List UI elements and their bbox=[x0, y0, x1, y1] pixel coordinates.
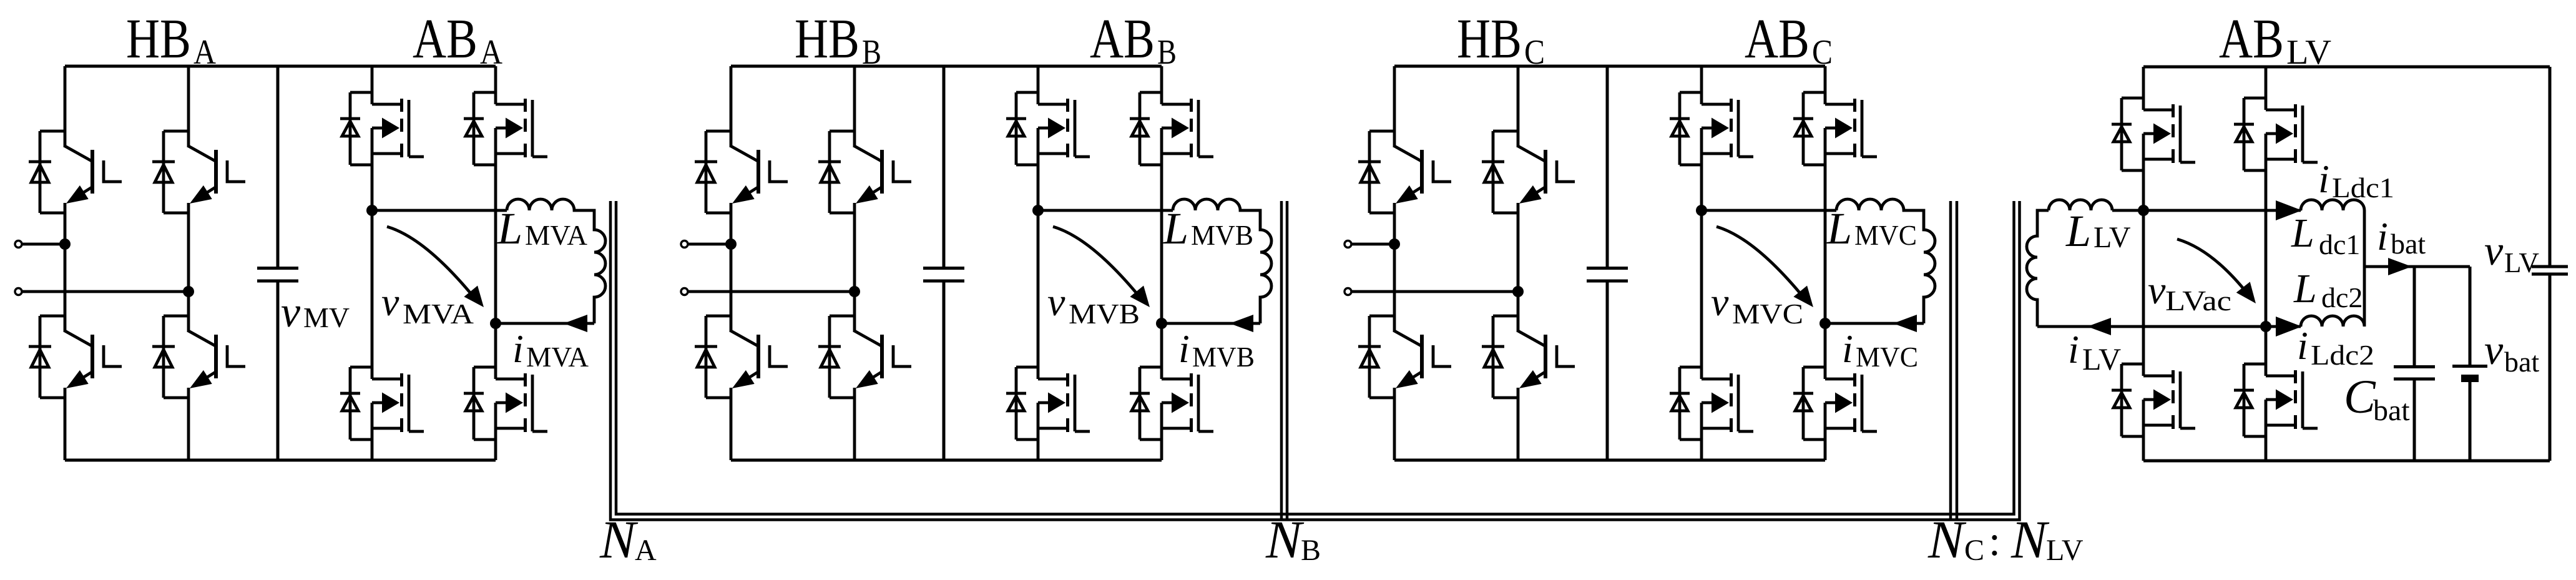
node: AB_C left leg midpoint bbox=[1696, 205, 1707, 216]
svg-text:B: B bbox=[862, 33, 881, 72]
svg-text:AB: AB bbox=[2219, 8, 2284, 70]
wire: AB_B output to L_MVB bbox=[1038, 209, 1173, 212]
mosfet S4C (AB_C bottom-right, with antiparallel diode) bbox=[1793, 367, 1877, 440]
svg-text:i: i bbox=[2068, 327, 2079, 371]
svg-text:HB: HB bbox=[795, 8, 859, 70]
arrow: i_Ldc2 current direction bbox=[2276, 317, 2302, 337]
mosfet S1A (AB_A top-left, with antiparallel diode) bbox=[340, 92, 424, 165]
wire: AB_C output to L_MVC bbox=[1702, 209, 1836, 212]
wire: AB_LV top DC bus bbox=[2143, 66, 2550, 69]
node: AB_B right leg midpoint (i_MVB return) bbox=[1156, 318, 1167, 329]
svg-text:dc2: dc2 bbox=[2321, 282, 2363, 313]
svg-text:MVB: MVB bbox=[1069, 298, 1140, 330]
terminal: HB_B AC input upper bbox=[681, 241, 688, 248]
svg-text:B: B bbox=[1157, 33, 1177, 72]
wire: AB_C right leg bbox=[1824, 66, 1827, 460]
node: HB_A right leg midpoint bbox=[183, 286, 194, 297]
igbt Q1C (HB_C top-left, with antiparallel diode) bbox=[1358, 131, 1451, 213]
svg-text:MVB: MVB bbox=[1191, 219, 1253, 251]
transformer core: inner line bbox=[616, 201, 2014, 514]
transformer core: N_C vertical pair bbox=[1951, 201, 1957, 521]
svg-text:AB: AB bbox=[413, 8, 477, 70]
wire: HB_B/AB_B top DC bus bbox=[731, 65, 1162, 68]
svg-text:N: N bbox=[599, 509, 639, 569]
svg-text:v: v bbox=[1047, 280, 1065, 324]
svg-text:v: v bbox=[281, 288, 301, 337]
svg-text:L: L bbox=[2065, 206, 2091, 256]
wire: AB_A left leg bbox=[371, 66, 374, 460]
inductor L_LV (transformer LV winding) bbox=[2027, 200, 2143, 327]
arrow: i_MVA current direction bbox=[564, 315, 587, 332]
svg-text:bat: bat bbox=[2391, 228, 2426, 260]
mosfet S3A (AB_A top-right, with antiparallel diode) bbox=[464, 92, 547, 165]
igbt Q2A (HB_A bottom-left, with antiparallel diode) bbox=[29, 316, 122, 398]
arrow: v_MVB voltage reference (curved) bbox=[1053, 227, 1140, 298]
igbt Q4B (HB_B bottom-right, with antiparallel diode) bbox=[818, 316, 911, 398]
svg-text:MV: MV bbox=[303, 302, 350, 333]
wire: winding return to AB_C right midpoint bbox=[1825, 322, 1924, 325]
svg-text:C: C bbox=[2344, 371, 2376, 423]
svg-text:N: N bbox=[1265, 509, 1305, 569]
mosfet S2B (AB_B bottom-left, with antiparallel diode) bbox=[1006, 367, 1090, 440]
wire/capacitor: v_LV output branch bbox=[2532, 67, 2568, 461]
inductor L_dc2 bbox=[2301, 267, 2364, 327]
igbt Q3C (HB_C top-right, with antiparallel diode) bbox=[1482, 131, 1575, 213]
wire: AB_LV left leg bbox=[2142, 67, 2145, 461]
svg-text:dc1: dc1 bbox=[2319, 229, 2360, 260]
svg-text:N: N bbox=[1927, 509, 1967, 569]
svg-text:LV: LV bbox=[2046, 534, 2084, 567]
svg-text:B: B bbox=[1301, 534, 1321, 567]
igbt Q1B (HB_B top-left, with antiparallel diode) bbox=[695, 131, 788, 213]
node: AB_B left leg midpoint bbox=[1032, 205, 1044, 216]
wire: HB_A/AB_A top DC bus bbox=[65, 65, 496, 68]
terminal: HB_A AC input lower bbox=[15, 288, 22, 295]
igbt Q4A (HB_A bottom-right, with antiparallel diode) bbox=[152, 316, 245, 398]
svg-text:N: N bbox=[2010, 509, 2050, 569]
terminal: HB_A AC input upper bbox=[15, 241, 22, 248]
svg-text:AB: AB bbox=[1745, 8, 1810, 70]
svg-text:Ldc2: Ldc2 bbox=[2311, 339, 2374, 371]
wire: upper terminal to left leg midpoint bbox=[22, 243, 65, 246]
svg-text:C: C bbox=[1524, 33, 1545, 72]
capacitor: DC link (phase B) bbox=[923, 66, 964, 460]
mosfet S4A (AB_A bottom-right, with antiparallel diode) bbox=[464, 367, 547, 440]
arrow: v_MVA voltage reference (curved) bbox=[387, 227, 474, 298]
terminal: HB_C AC input upper bbox=[1344, 241, 1351, 248]
svg-text:v: v bbox=[2148, 268, 2166, 312]
igbt Q2C (HB_C bottom-left, with antiparallel diode) bbox=[1358, 316, 1451, 398]
svg-text:i: i bbox=[2377, 214, 2388, 258]
svg-text:L: L bbox=[2293, 266, 2317, 312]
wire: AB_LV right leg bbox=[2265, 67, 2268, 461]
igbt Q3A (HB_A top-right, with antiparallel diode) bbox=[152, 131, 245, 213]
inductor L_MVC (transformer MV winding, phase C) bbox=[1836, 199, 1935, 323]
node: AB_LV left leg midpoint bbox=[2138, 205, 2149, 216]
node: HB_C left leg midpoint bbox=[1389, 238, 1400, 250]
wire: HB_C left leg bbox=[1393, 66, 1396, 460]
svg-text:MVA: MVA bbox=[526, 341, 589, 373]
svg-text:i: i bbox=[2318, 157, 2329, 201]
mosfet S4LV (AB_LV bottom-right, with antiparallel diode) bbox=[2234, 364, 2318, 436]
wire: LV winding bottom return bbox=[2037, 325, 2266, 328]
mosfet S1LV (AB_LV top-left, with antiparallel diode) bbox=[2112, 98, 2195, 170]
igbt Q3B (HB_B top-right, with antiparallel diode) bbox=[818, 131, 911, 213]
svg-text:MVC: MVC bbox=[1854, 219, 1917, 251]
node: AB_A left leg midpoint bbox=[366, 205, 378, 216]
node: HB_C right leg midpoint bbox=[1512, 286, 1524, 297]
svg-text:MVB: MVB bbox=[1192, 341, 1255, 373]
battery v_bat bbox=[2452, 267, 2487, 461]
wire: AB_C left leg bbox=[1700, 66, 1703, 460]
svg-text:v: v bbox=[381, 280, 399, 324]
svg-text:v: v bbox=[1711, 280, 1729, 324]
wire: HB_C right leg bbox=[1517, 66, 1520, 460]
svg-text:A: A bbox=[635, 534, 657, 567]
wire: HB_B left leg bbox=[730, 66, 733, 460]
svg-text:LV: LV bbox=[2082, 342, 2121, 376]
svg-text:A: A bbox=[480, 33, 502, 72]
igbt Q4C (HB_C bottom-right, with antiparallel diode) bbox=[1482, 316, 1575, 398]
svg-text:LV: LV bbox=[2094, 221, 2131, 254]
svg-text:MVA: MVA bbox=[403, 298, 474, 330]
wire: lower terminal to right leg midpoint bbox=[22, 290, 189, 293]
terminal: HB_B AC input lower bbox=[681, 288, 688, 295]
igbt Q2B (HB_B bottom-left, with antiparallel diode) bbox=[695, 316, 788, 398]
svg-text:i: i bbox=[1178, 327, 1190, 371]
svg-text:MVA: MVA bbox=[525, 219, 587, 251]
mosfet S2A (AB_A bottom-left, with antiparallel diode) bbox=[340, 367, 424, 440]
mosfet S2LV (AB_LV bottom-left, with antiparallel diode) bbox=[2112, 364, 2195, 436]
wire: HB_C/AB_C bottom DC rail bbox=[1394, 459, 1825, 462]
svg-text:C: C bbox=[1812, 33, 1833, 72]
svg-text:MVC: MVC bbox=[1732, 298, 1803, 330]
arrow: i_MVB current direction bbox=[1230, 315, 1253, 332]
node: AB_LV right leg midpoint bbox=[2260, 321, 2271, 332]
igbt Q1A (HB_A top-left, with antiparallel diode) bbox=[29, 131, 122, 213]
svg-text:L: L bbox=[497, 204, 522, 253]
arrow: i_LV current direction bbox=[2087, 318, 2111, 335]
wire: AB_LV left midpoint to L_dc1 bbox=[2143, 209, 2301, 212]
mosfet S1B (AB_B top-left, with antiparallel diode) bbox=[1006, 92, 1090, 165]
svg-text:v: v bbox=[2484, 227, 2504, 274]
node: AB_A right leg midpoint (i_MVA return) bbox=[490, 318, 501, 329]
arrow: i_Ldc1 current direction bbox=[2276, 200, 2302, 220]
wire: HB_B right leg bbox=[853, 66, 856, 460]
svg-text:bat: bat bbox=[2373, 394, 2410, 427]
svg-text:AB: AB bbox=[1090, 8, 1155, 70]
svg-text:L: L bbox=[1163, 204, 1188, 253]
svg-text:v: v bbox=[2484, 326, 2504, 373]
svg-text:LV: LV bbox=[2286, 33, 2331, 72]
svg-text:L: L bbox=[2291, 210, 2314, 256]
wire: AB_LV bottom DC rail bbox=[2143, 460, 2550, 463]
wire: HB_A/AB_A bottom DC rail bbox=[65, 459, 496, 462]
node: HB_A left leg midpoint bbox=[59, 238, 71, 250]
svg-text:HB: HB bbox=[126, 8, 191, 70]
svg-text:i: i bbox=[2297, 323, 2308, 368]
mosfet S3B (AB_B top-right, with antiparallel diode) bbox=[1130, 92, 1213, 165]
mosfet S2C (AB_C bottom-left, with antiparallel diode) bbox=[1670, 367, 1753, 440]
wire: AB_A right leg bbox=[494, 66, 497, 460]
wire: winding return to AB_B right midpoint bbox=[1162, 322, 1260, 325]
arrow: v_MVC voltage reference (curved) bbox=[1717, 227, 1804, 298]
wire: i_bat output wire bbox=[2364, 265, 2470, 268]
transformer core: N_B vertical pair bbox=[1281, 201, 1287, 521]
wire: HB_A left leg bbox=[64, 66, 67, 460]
svg-text:i: i bbox=[512, 327, 524, 371]
wire: winding return to AB_A right midpoint bbox=[496, 322, 594, 325]
wire: HB_C/AB_C top DC bus bbox=[1394, 65, 1825, 68]
transformer core: outer line (N_A down, bottom bus, up to N_LV) bbox=[610, 201, 2020, 520]
wire: HB_A right leg bbox=[187, 66, 190, 460]
capacitor C_bat bbox=[2394, 267, 2435, 461]
wire: AB_LV right midpoint to L_dc2 bbox=[2266, 325, 2301, 328]
node: HB_B left leg midpoint bbox=[725, 238, 737, 250]
arrow: v_LVac voltage reference (curved) bbox=[2177, 239, 2248, 295]
inductor L_MVB (transformer MV winding, phase B) bbox=[1173, 199, 1271, 323]
svg-text:A: A bbox=[193, 33, 216, 72]
svg-text::: : bbox=[1989, 517, 2001, 564]
wire: upper terminal to left leg midpoint bbox=[1351, 243, 1394, 246]
wire: lower terminal to right leg midpoint bbox=[688, 290, 855, 293]
mosfet S3C (AB_C top-right, with antiparallel diode) bbox=[1793, 92, 1877, 165]
inductor L_dc1 bbox=[2301, 200, 2364, 267]
svg-text:i: i bbox=[1842, 327, 1853, 371]
inductor L_MVA (transformer MV winding, phase A) bbox=[507, 199, 605, 323]
wire: AB_A output to L_MVA bbox=[372, 209, 507, 212]
capacitor: DC link (phase C) bbox=[1587, 66, 1628, 460]
capacitor: DC link (phase A) bbox=[257, 66, 298, 460]
svg-text:bat: bat bbox=[2504, 346, 2539, 378]
node: AB_C right leg midpoint (i_MVC return) bbox=[1819, 318, 1831, 329]
svg-text:LVac: LVac bbox=[2165, 285, 2231, 317]
mosfet S1C (AB_C top-left, with antiparallel diode) bbox=[1670, 92, 1753, 165]
arrow: i_MVC current direction bbox=[1893, 315, 1917, 332]
svg-text:LV: LV bbox=[2504, 247, 2539, 278]
wire: lower terminal to right leg midpoint bbox=[1351, 290, 1518, 293]
svg-text:HB: HB bbox=[1457, 8, 1522, 70]
mosfet S4B (AB_B bottom-right, with antiparallel diode) bbox=[1130, 367, 1213, 440]
svg-text:Ldc1: Ldc1 bbox=[2332, 172, 2394, 204]
arrow: i_bat current direction bbox=[2388, 258, 2412, 275]
terminal: HB_C AC input lower bbox=[1344, 288, 1351, 295]
wire: upper terminal to left leg midpoint bbox=[688, 243, 731, 246]
svg-text:L: L bbox=[1826, 204, 1852, 253]
wire: HB_B/AB_B bottom DC rail bbox=[731, 459, 1162, 462]
wire: AB_B right leg bbox=[1160, 66, 1163, 460]
mosfet S3LV (AB_LV top-right, with antiparallel diode) bbox=[2234, 98, 2318, 170]
wire: AB_B left leg bbox=[1037, 66, 1040, 460]
svg-text:C: C bbox=[1964, 534, 1984, 567]
svg-text:MVC: MVC bbox=[1856, 341, 1918, 373]
node: HB_B right leg midpoint bbox=[849, 286, 860, 297]
